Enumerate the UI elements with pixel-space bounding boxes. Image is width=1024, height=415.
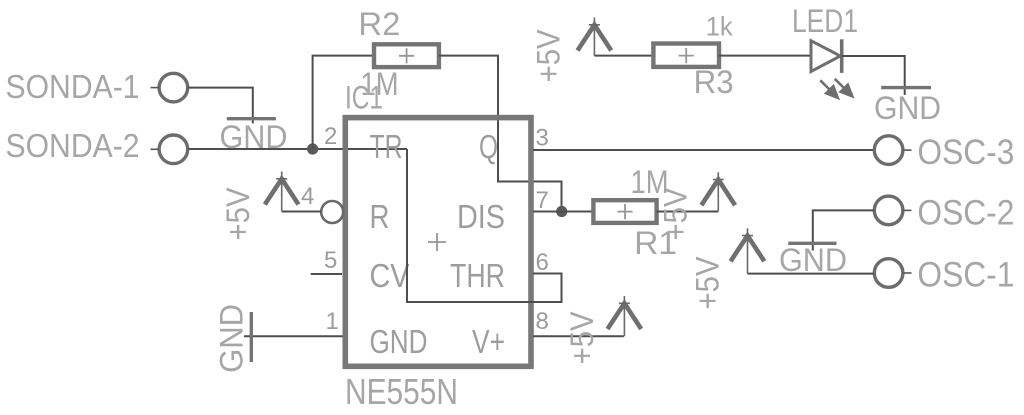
svg-text:+5V: +5V — [690, 256, 726, 310]
LED1 light arrows — [820, 79, 852, 98]
wire SONDA-1 to GND — [188, 88, 253, 124]
wire pin 8 to +5V — [533, 335, 624, 337]
connector pin OSC-3 — [874, 136, 911, 165]
svg-text:V+: V+ — [472, 323, 505, 360]
connector pin OSC-2 — [874, 196, 911, 225]
inverting bubble pin 4 — [321, 201, 343, 223]
connector pin SONDA-2 — [151, 135, 188, 164]
svg-text:2: 2 — [324, 123, 337, 150]
resistor R3 — [653, 44, 719, 67]
svg-text:GND: GND — [214, 304, 250, 373]
supply +5V symbol at R1 — [701, 172, 735, 211]
wire SONDA-2 to node TR — [188, 148, 407, 150]
wire junction up to R2 — [313, 56, 374, 149]
ground symbol at pin 1 — [250, 312, 253, 362]
svg-text:SONDA-2: SONDA-2 — [6, 128, 140, 165]
svg-text:3: 3 — [536, 125, 549, 152]
wire OSC-2 to GND — [813, 210, 874, 250]
wire LED1 to GND — [842, 56, 905, 95]
wire R3 to LED1 — [719, 55, 811, 57]
supply +5V symbol top — [578, 18, 612, 56]
svg-text:IC1: IC1 — [345, 79, 383, 115]
IC1 body NE555N — [345, 118, 531, 367]
junction at pin 2 — [307, 143, 318, 154]
svg-text:+5V: +5V — [564, 311, 600, 365]
svg-text:SONDA-1: SONDA-1 — [6, 69, 140, 106]
svg-text:R3: R3 — [694, 64, 734, 100]
svg-text:OSC-3: OSC-3 — [917, 133, 1014, 172]
svg-text:GND: GND — [370, 323, 428, 360]
ground symbol near LED1 — [881, 86, 931, 89]
svg-text:4: 4 — [301, 183, 314, 210]
svg-text:TR: TR — [370, 128, 403, 165]
supply +5V symbol at pin 8 — [608, 296, 642, 336]
LED LED1 — [811, 39, 842, 73]
wire junction to R1 — [533, 211, 593, 213]
wire +5V to R3 — [594, 55, 653, 57]
wire node TR to THR pin 6 — [407, 149, 562, 302]
svg-text:7: 7 — [536, 187, 549, 214]
svg-text:R: R — [370, 198, 390, 235]
svg-text:1k: 1k — [706, 12, 733, 42]
svg-text:8: 8 — [536, 308, 549, 335]
wire R1 to +5V — [657, 211, 719, 213]
resistor R1 — [593, 200, 656, 223]
wire pin 3 to OSC-3 — [533, 149, 874, 151]
ground symbol near SONDA-1 — [227, 117, 276, 120]
svg-text:+5V: +5V — [531, 29, 567, 83]
IC1 origin cross — [428, 233, 446, 251]
wire pin 1 to GND — [244, 335, 343, 337]
svg-text:DIS: DIS — [457, 198, 505, 235]
svg-text:R2: R2 — [358, 6, 400, 42]
wire +5V to pin 4 — [282, 211, 322, 213]
connector pin OSC-1 — [874, 259, 911, 288]
resistor R2 — [374, 44, 439, 67]
svg-text:Q: Q — [479, 128, 498, 165]
junction at pin 7 — [556, 206, 567, 217]
svg-text:CV: CV — [370, 257, 410, 294]
svg-text:+5V: +5V — [220, 187, 256, 241]
svg-text:GND: GND — [874, 90, 941, 126]
wire R2 to pin 7 — [439, 56, 562, 212]
supply +5V symbol at OSC-1 — [731, 228, 765, 273]
svg-text:OSC-2: OSC-2 — [917, 193, 1014, 232]
svg-text:6: 6 — [536, 249, 549, 276]
svg-text:1: 1 — [326, 308, 339, 335]
pin 5 stub — [311, 273, 342, 275]
svg-text:THR: THR — [450, 257, 505, 294]
svg-text:OSC-1: OSC-1 — [917, 255, 1014, 294]
svg-text:5: 5 — [324, 247, 337, 274]
svg-text:LED1: LED1 — [792, 3, 858, 39]
ground symbol near OSC-2 — [788, 242, 836, 245]
svg-text:NE555N: NE555N — [345, 371, 458, 410]
connector pin SONDA-1 — [151, 73, 188, 102]
wire OSC-1 to +5V — [748, 273, 875, 275]
supply +5V symbol at pin 4 — [265, 172, 299, 212]
svg-text:+5V: +5V — [658, 187, 694, 241]
